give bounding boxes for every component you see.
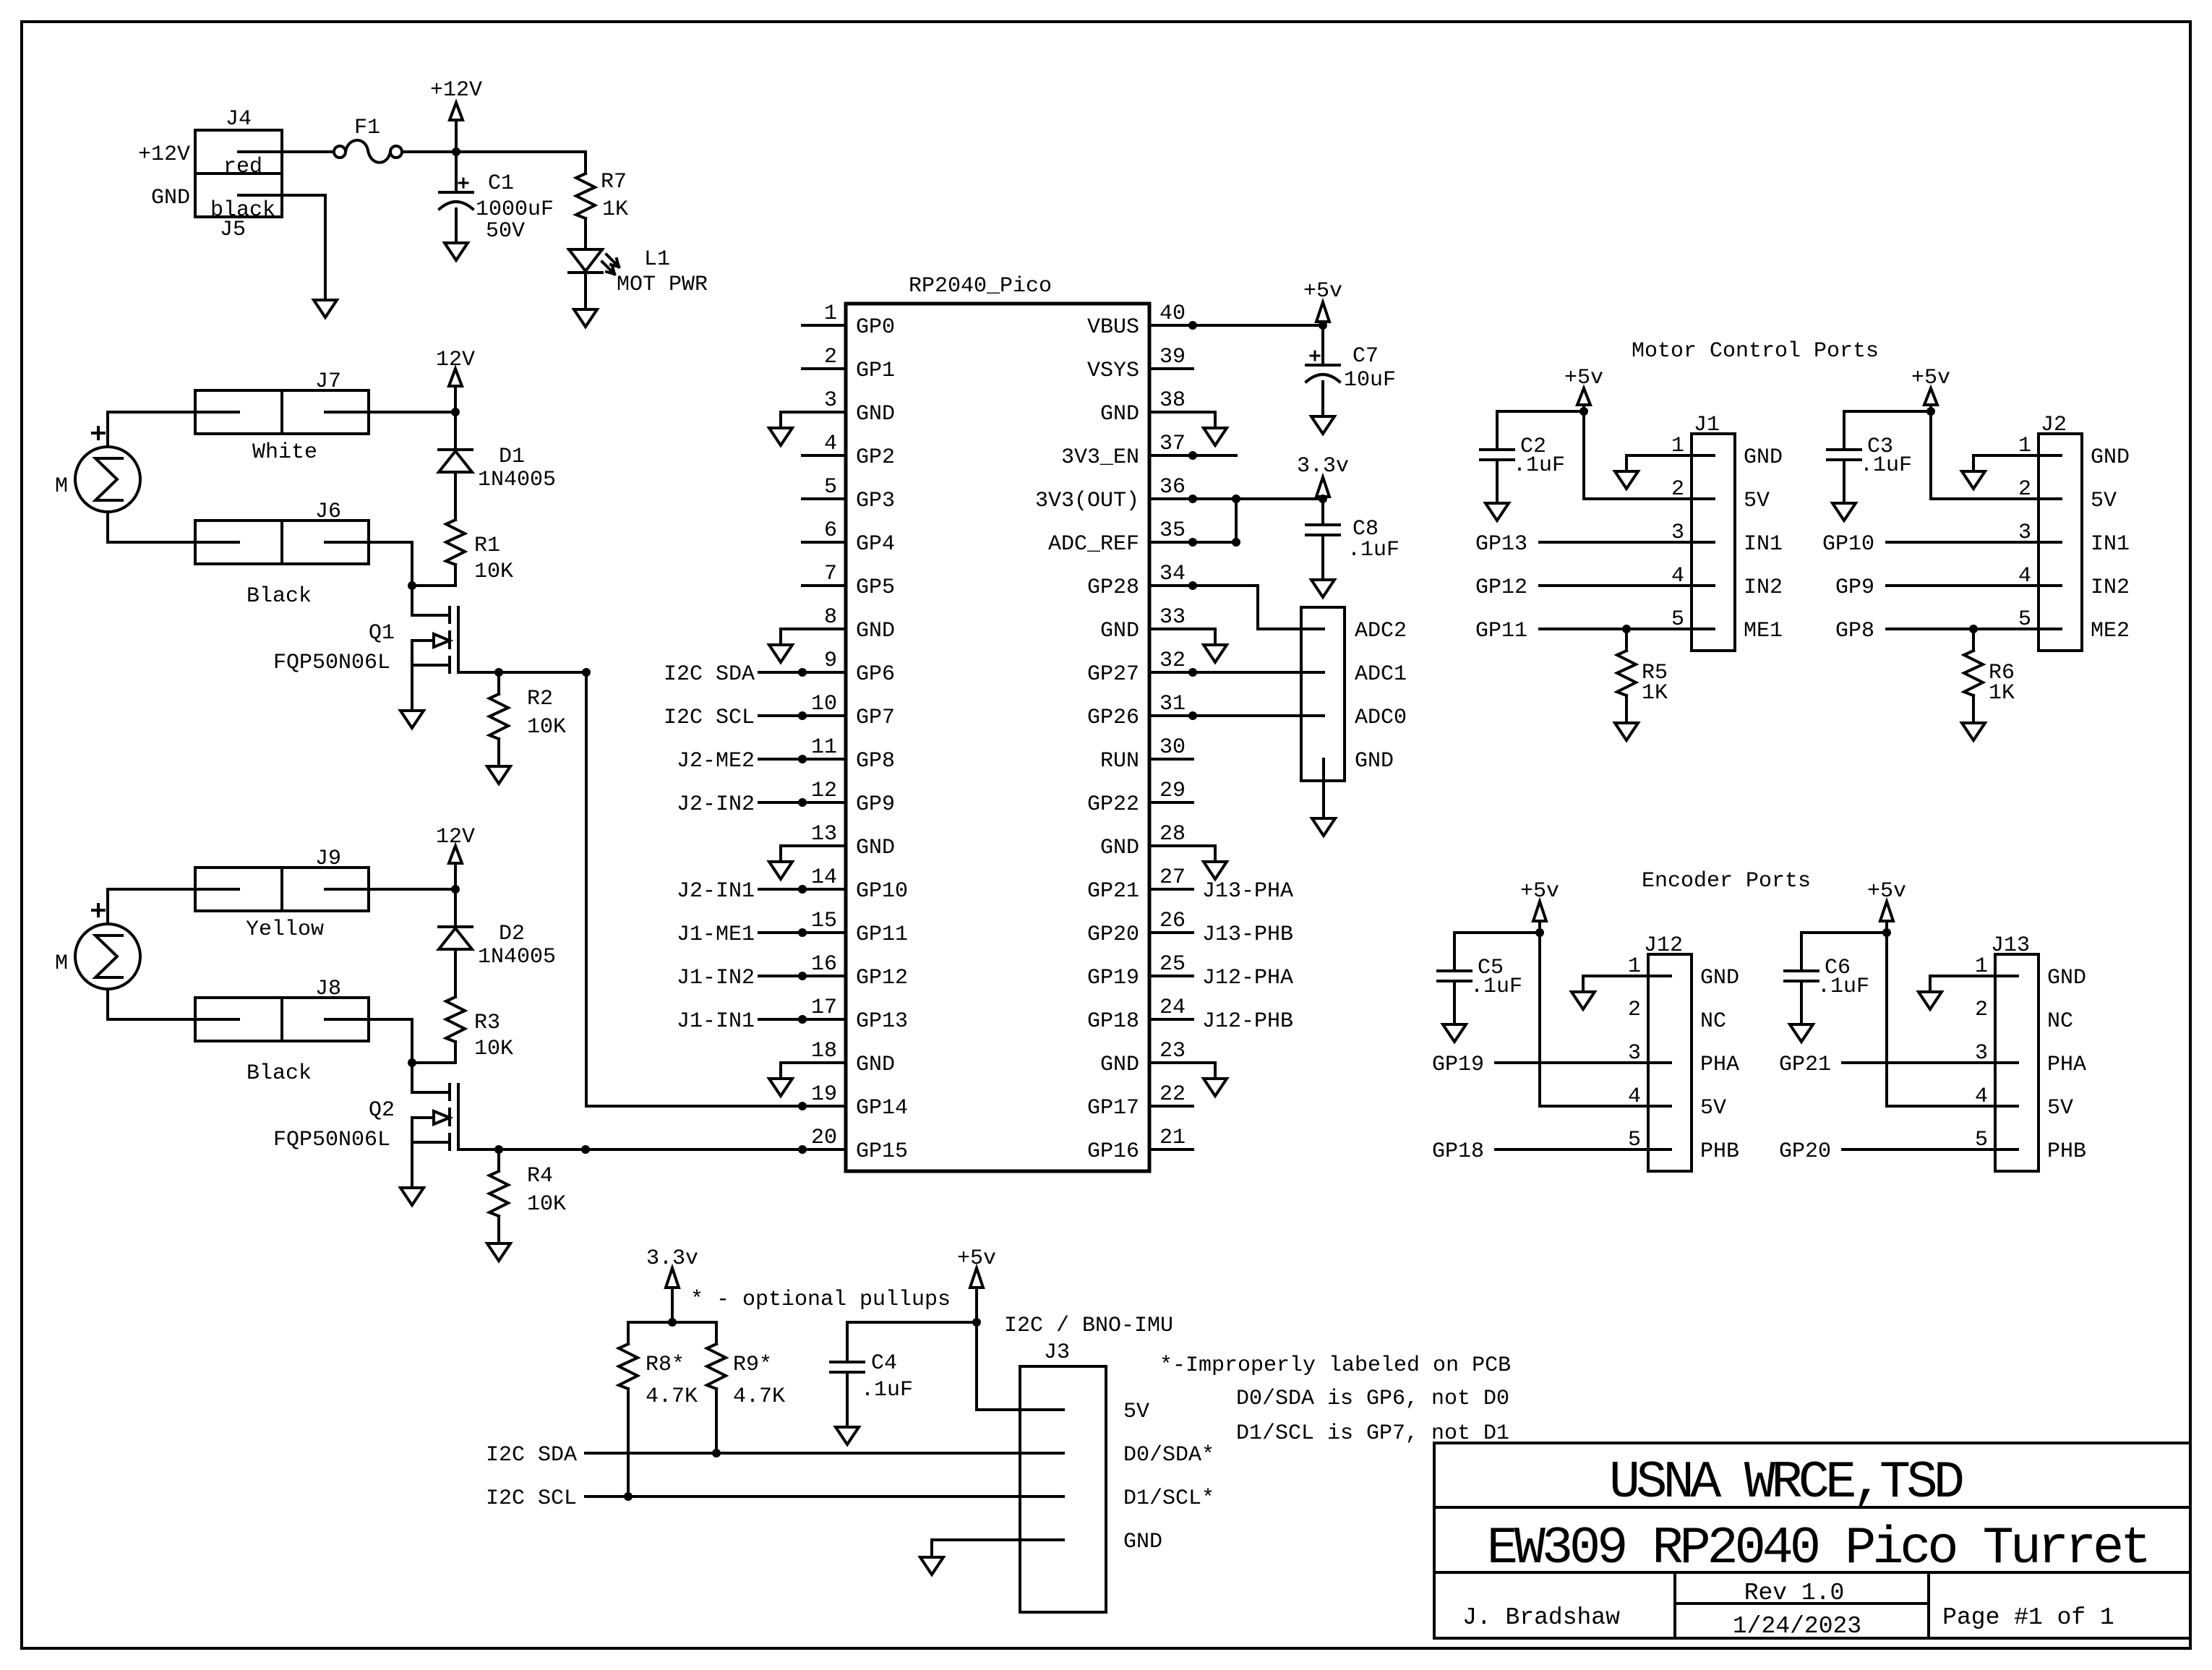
svg-text:+5v: +5v: [1564, 366, 1603, 390]
svg-text:26: 26: [1159, 909, 1186, 933]
svg-text:GND: GND: [1700, 966, 1739, 990]
svg-text:GND: GND: [1744, 445, 1783, 470]
svg-text:28: 28: [1159, 822, 1186, 847]
svg-text:GP5: GP5: [856, 575, 895, 600]
svg-text:D0/SDA is GP6, not D0: D0/SDA is GP6, not D0: [1236, 1387, 1509, 1411]
svg-text:Black: Black: [247, 584, 312, 609]
svg-text:GP8: GP8: [856, 749, 895, 774]
svg-text:GP9: GP9: [856, 792, 895, 817]
svg-text:J2-IN2: J2-IN2: [677, 792, 755, 817]
svg-text:GP21: GP21: [1087, 879, 1139, 904]
svg-text:4: 4: [824, 432, 837, 456]
svg-text:D1/SCL*: D1/SCL*: [1123, 1486, 1214, 1511]
svg-text:J12: J12: [1644, 933, 1683, 958]
svg-text:J1-ME1: J1-ME1: [677, 922, 755, 947]
svg-text:12: 12: [811, 779, 837, 803]
svg-text:21: 21: [1159, 1126, 1186, 1150]
svg-text:25: 25: [1159, 952, 1186, 977]
svg-text:10: 10: [811, 692, 837, 716]
svg-text:J12-PHB: J12-PHB: [1202, 1009, 1293, 1034]
svg-text:+5v: +5v: [1867, 879, 1906, 904]
svg-text:R4: R4: [527, 1164, 553, 1189]
svg-text:FQP50N06L: FQP50N06L: [273, 651, 390, 675]
svg-text:+5v: +5v: [1911, 366, 1950, 390]
svg-text:Encoder Ports: Encoder Ports: [1642, 869, 1811, 894]
svg-text:1K: 1K: [602, 197, 628, 222]
svg-text:GP20: GP20: [1779, 1139, 1831, 1164]
svg-text:GP7: GP7: [856, 706, 895, 730]
svg-text:GP1: GP1: [856, 359, 895, 383]
svg-text:38: 38: [1159, 388, 1186, 413]
svg-text:.1uF: .1uF: [861, 1378, 913, 1403]
svg-text:27: 27: [1159, 865, 1186, 890]
svg-text:GP19: GP19: [1087, 966, 1139, 990]
svg-text:R1: R1: [474, 534, 500, 558]
svg-text:IN1: IN1: [2091, 532, 2130, 557]
svg-text:J7: J7: [315, 369, 341, 394]
svg-text:PHB: PHB: [2047, 1139, 2086, 1164]
svg-text:.1uF: .1uF: [1347, 538, 1399, 562]
svg-text:NC: NC: [1700, 1009, 1726, 1034]
svg-text:GP17: GP17: [1087, 1096, 1139, 1121]
svg-text:33: 33: [1159, 605, 1186, 630]
svg-text:10K: 10K: [527, 715, 566, 740]
svg-text:16: 16: [811, 952, 837, 977]
svg-text:20: 20: [811, 1126, 837, 1150]
svg-text:+12V: +12V: [430, 78, 482, 103]
svg-text:9: 9: [824, 648, 837, 673]
svg-text:15: 15: [811, 909, 837, 933]
svg-text:50V: 50V: [486, 219, 525, 244]
svg-text:GP11: GP11: [856, 922, 908, 947]
svg-text:1N4005: 1N4005: [478, 945, 556, 969]
svg-text:GP10: GP10: [856, 879, 908, 904]
svg-text:I2C SDA: I2C SDA: [486, 1443, 577, 1468]
svg-text:J2: J2: [2041, 413, 2067, 437]
svg-text:10K: 10K: [527, 1192, 566, 1217]
svg-text:5V: 5V: [2091, 489, 2117, 513]
svg-text:GP19: GP19: [1432, 1053, 1484, 1077]
svg-text:R2: R2: [527, 687, 553, 711]
svg-text:29: 29: [1159, 779, 1186, 803]
svg-text:17: 17: [811, 995, 837, 1020]
svg-text:RP2040_Pico: RP2040_Pico: [909, 274, 1052, 299]
svg-text:7: 7: [824, 562, 837, 586]
svg-text:C4: C4: [871, 1351, 897, 1376]
svg-text:ADC_REF: ADC_REF: [1048, 532, 1139, 557]
svg-text:Motor Control Ports: Motor Control Ports: [1632, 339, 1879, 364]
svg-text:5V: 5V: [1700, 1096, 1726, 1121]
svg-text:J6: J6: [315, 500, 341, 524]
svg-text:Page #1 of 1: Page #1 of 1: [1942, 1604, 2114, 1631]
svg-text:ADC0: ADC0: [1355, 706, 1407, 730]
svg-text:35: 35: [1159, 518, 1186, 543]
svg-text:GND: GND: [856, 1053, 895, 1077]
svg-text:R9*: R9*: [733, 1353, 772, 1377]
svg-text:10K: 10K: [474, 1037, 513, 1061]
svg-text:Rev 1.0: Rev 1.0: [1744, 1580, 1845, 1606]
svg-text:13: 13: [811, 822, 837, 847]
svg-text:11: 11: [811, 735, 837, 760]
svg-text:GND: GND: [1100, 836, 1139, 860]
svg-text:GP9: GP9: [1835, 575, 1874, 600]
svg-text:MOT PWR: MOT PWR: [617, 273, 708, 297]
svg-text:5V: 5V: [1744, 489, 1770, 513]
svg-text:GND: GND: [1100, 619, 1139, 643]
svg-text:M: M: [55, 951, 68, 976]
svg-text:GP15: GP15: [856, 1139, 908, 1164]
svg-text:J13-PHB: J13-PHB: [1202, 922, 1293, 947]
svg-text:2: 2: [1628, 998, 1641, 1022]
svg-text:+5v: +5v: [1303, 279, 1342, 304]
svg-text:24: 24: [1159, 995, 1186, 1020]
svg-text:R8*: R8*: [646, 1353, 685, 1377]
svg-text:3.3v: 3.3v: [646, 1246, 698, 1271]
svg-text:black: black: [210, 198, 275, 223]
svg-text:3V3(OUT): 3V3(OUT): [1035, 489, 1139, 513]
svg-text:30: 30: [1159, 735, 1186, 760]
svg-text:GP12: GP12: [856, 966, 908, 990]
svg-text:M: M: [55, 474, 68, 499]
svg-text:J4: J4: [226, 107, 252, 132]
svg-text:GND: GND: [1123, 1530, 1162, 1554]
svg-text:Black: Black: [247, 1061, 312, 1086]
svg-text:GND: GND: [151, 186, 190, 210]
svg-text:I2C SCL: I2C SCL: [486, 1486, 577, 1511]
svg-text:1: 1: [824, 301, 837, 326]
svg-text:12V: 12V: [436, 825, 475, 849]
svg-text:J1-IN1: J1-IN1: [677, 1009, 755, 1034]
svg-text:*-Improperly labeled on PCB: *-Improperly labeled on PCB: [1159, 1353, 1511, 1378]
svg-text:GND: GND: [856, 836, 895, 860]
svg-text:1K: 1K: [1989, 681, 2015, 706]
svg-text:12V: 12V: [436, 348, 475, 372]
svg-text:GND: GND: [856, 619, 895, 643]
svg-text:2: 2: [824, 345, 837, 369]
svg-text:I2C SDA: I2C SDA: [664, 662, 755, 687]
svg-text:GP3: GP3: [856, 489, 895, 513]
svg-text:+5v: +5v: [957, 1246, 996, 1271]
svg-text:GP2: GP2: [856, 445, 895, 470]
svg-text:GP22: GP22: [1087, 792, 1139, 817]
svg-text:1/24/2023: 1/24/2023: [1733, 1613, 1861, 1640]
svg-text:GP12: GP12: [1475, 575, 1527, 600]
svg-text:5V: 5V: [1123, 1400, 1149, 1424]
svg-text:VBUS: VBUS: [1087, 315, 1139, 340]
svg-text:EW309 RP2040 Pico Turret: EW309 RP2040 Pico Turret: [1487, 1519, 2148, 1578]
svg-text:GP16: GP16: [1087, 1139, 1139, 1164]
svg-text:GP27: GP27: [1087, 662, 1139, 687]
svg-text:D1: D1: [499, 445, 525, 469]
svg-text:J9: J9: [315, 847, 341, 871]
svg-text:C7: C7: [1353, 344, 1379, 369]
svg-text:.1uF: .1uF: [1513, 453, 1565, 478]
svg-text:2: 2: [1975, 998, 1988, 1022]
svg-text:I2C SCL: I2C SCL: [664, 706, 755, 730]
svg-text:GP0: GP0: [856, 315, 895, 340]
svg-text:PHA: PHA: [1700, 1053, 1739, 1077]
svg-text:RUN: RUN: [1100, 749, 1139, 774]
svg-text:GP13: GP13: [856, 1009, 908, 1034]
svg-text:Q2: Q2: [369, 1098, 395, 1123]
svg-text:F1: F1: [354, 116, 380, 140]
svg-text:GND: GND: [2047, 966, 2086, 990]
svg-text:+5v: +5v: [1520, 879, 1559, 904]
svg-text:10K: 10K: [474, 560, 513, 584]
svg-text:White: White: [252, 440, 317, 465]
svg-text:ADC1: ADC1: [1355, 662, 1407, 687]
svg-text:GP14: GP14: [856, 1096, 908, 1121]
svg-text:D0/SDA*: D0/SDA*: [1123, 1443, 1214, 1468]
svg-text:D2: D2: [499, 922, 525, 946]
svg-text:+12V: +12V: [138, 142, 190, 167]
svg-text:VSYS: VSYS: [1087, 359, 1139, 383]
svg-text:PHB: PHB: [1700, 1139, 1739, 1164]
svg-text:J1: J1: [1694, 413, 1720, 437]
svg-text:36: 36: [1159, 475, 1186, 500]
svg-text:PHA: PHA: [2047, 1053, 2086, 1077]
svg-text:22: 22: [1159, 1082, 1186, 1107]
svg-text:GP18: GP18: [1087, 1009, 1139, 1034]
svg-text:GP21: GP21: [1779, 1053, 1831, 1077]
svg-text:J2-ME2: J2-ME2: [677, 749, 755, 774]
svg-text:1000uF: 1000uF: [476, 197, 554, 222]
svg-text:.1uF: .1uF: [1817, 975, 1869, 999]
svg-text:.1uF: .1uF: [1470, 975, 1522, 999]
svg-text:3.3v: 3.3v: [1297, 454, 1349, 479]
svg-text:5: 5: [824, 475, 837, 500]
svg-text:39: 39: [1159, 345, 1186, 369]
svg-text:23: 23: [1159, 1039, 1186, 1063]
svg-text:19: 19: [811, 1082, 837, 1107]
svg-text:4.7K: 4.7K: [733, 1384, 785, 1409]
svg-text:GP6: GP6: [856, 662, 895, 687]
svg-text:GP18: GP18: [1432, 1139, 1484, 1164]
svg-text:I2C / BNO-IMU: I2C / BNO-IMU: [1004, 1314, 1173, 1338]
svg-text:IN2: IN2: [1744, 575, 1783, 600]
svg-text:GP26: GP26: [1087, 706, 1139, 730]
svg-text:GP11: GP11: [1475, 619, 1527, 643]
svg-text:Q1: Q1: [369, 621, 395, 646]
svg-text:GP13: GP13: [1475, 532, 1527, 557]
svg-text:8: 8: [824, 605, 837, 630]
svg-text:1K: 1K: [1642, 681, 1668, 706]
svg-text:red: red: [223, 155, 262, 179]
svg-text:1N4005: 1N4005: [478, 468, 556, 492]
svg-text:GND: GND: [2091, 445, 2130, 470]
svg-text:FQP50N06L: FQP50N06L: [273, 1128, 390, 1152]
svg-text:USNA WRCE,TSD: USNA WRCE,TSD: [1609, 1453, 1963, 1512]
svg-text:5V: 5V: [2047, 1096, 2073, 1121]
svg-text:C1: C1: [488, 171, 514, 196]
svg-text:J2-IN1: J2-IN1: [677, 879, 755, 904]
svg-text:4.7K: 4.7K: [646, 1384, 698, 1409]
svg-text:3: 3: [824, 388, 837, 413]
svg-text:J8: J8: [315, 977, 341, 1001]
svg-text:31: 31: [1159, 692, 1186, 716]
svg-text:40: 40: [1159, 301, 1186, 326]
svg-text:GND: GND: [1100, 402, 1139, 427]
svg-text:ME2: ME2: [2091, 619, 2130, 643]
svg-text:R3: R3: [474, 1011, 500, 1035]
svg-text:R7: R7: [601, 170, 627, 194]
svg-text:GP8: GP8: [1835, 619, 1874, 643]
svg-text:3V3_EN: 3V3_EN: [1061, 445, 1139, 470]
svg-text:34: 34: [1159, 562, 1186, 586]
svg-text:37: 37: [1159, 432, 1186, 456]
svg-text:GND: GND: [1100, 1053, 1139, 1077]
svg-text:GP10: GP10: [1822, 532, 1874, 557]
svg-text:GND: GND: [1355, 749, 1394, 774]
svg-text:NC: NC: [2047, 1009, 2073, 1034]
svg-text:ADC2: ADC2: [1355, 619, 1407, 643]
svg-text:GND: GND: [856, 402, 895, 427]
svg-text:J12-PHA: J12-PHA: [1202, 966, 1293, 990]
svg-text:IN1: IN1: [1744, 532, 1783, 557]
svg-text:ME1: ME1: [1744, 619, 1783, 643]
svg-text:.1uF: .1uF: [1860, 453, 1912, 478]
svg-text:J3: J3: [1044, 1340, 1070, 1365]
svg-text:GP28: GP28: [1087, 575, 1139, 600]
svg-text:GP4: GP4: [856, 532, 895, 557]
svg-text:14: 14: [811, 865, 837, 890]
svg-text:6: 6: [824, 518, 837, 543]
svg-text:J. Bradshaw: J. Bradshaw: [1462, 1604, 1620, 1631]
svg-text:10uF: 10uF: [1344, 368, 1396, 393]
svg-text:J13-PHA: J13-PHA: [1202, 879, 1293, 904]
svg-text:* - optional pullups: * - optional pullups: [690, 1288, 951, 1312]
svg-text:Yellow: Yellow: [246, 917, 324, 942]
svg-text:L1: L1: [644, 247, 670, 272]
svg-text:GP20: GP20: [1087, 922, 1139, 947]
svg-text:J1-IN2: J1-IN2: [677, 966, 755, 990]
svg-text:IN2: IN2: [2091, 575, 2130, 600]
svg-text:18: 18: [811, 1039, 837, 1063]
svg-text:J13: J13: [1991, 933, 2030, 958]
svg-text:32: 32: [1159, 648, 1186, 673]
